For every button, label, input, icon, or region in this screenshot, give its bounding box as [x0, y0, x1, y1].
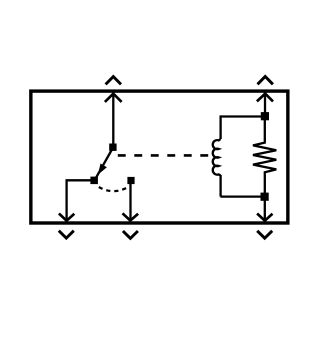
- wire: coil branch down to inductor: [219, 115, 221, 139]
- filled arrowhead on armature: [98, 164, 107, 175]
- wire: top-left terminal to pivot: [112, 93, 114, 146]
- wire: coil top node to coil branch: [220, 115, 265, 117]
- pin marker chevron top-left: [106, 77, 121, 85]
- coil top node square: [261, 112, 269, 120]
- arrowhead down at bottom-left terminal: [59, 214, 74, 221]
- pivot node square: [109, 144, 116, 151]
- dashed throw arc: [99, 186, 130, 191]
- common contact node square: [90, 177, 98, 185]
- relay body box K1: [31, 91, 288, 223]
- arrowhead up at top-left terminal: [105, 94, 122, 102]
- pin marker chevron top-right: [258, 77, 273, 85]
- wire: coil bottom node to bottom-right terminal: [264, 198, 266, 221]
- arrowhead down at bottom-middle terminal: [123, 213, 139, 220]
- resistor R1 zigzag: [253, 114, 276, 198]
- wire: inductor to bottom wire: [219, 175, 221, 197]
- coil bottom node square: [261, 193, 269, 201]
- arrowhead down at bottom-right terminal: [257, 214, 272, 221]
- wire: top-right terminal to coil node: [264, 93, 266, 115]
- switch armature (pole): [95, 149, 112, 180]
- pin marker chevron bottom-left: [59, 231, 74, 238]
- wire: common contact to bottom-left terminal: [67, 180, 94, 220]
- wire: coil branch bottom to coil bottom node: [220, 195, 264, 197]
- arrowhead up at top-right terminal: [257, 94, 273, 102]
- pin marker chevron bottom-right: [257, 231, 272, 238]
- wire: NC contact to bottom-middle terminal: [129, 182, 131, 221]
- NC contact node square: [127, 177, 134, 184]
- pin marker chevron bottom-middle: [123, 231, 138, 238]
- inductor L1 coil: [213, 139, 221, 176]
- dashed actuator link: [118, 154, 208, 157]
